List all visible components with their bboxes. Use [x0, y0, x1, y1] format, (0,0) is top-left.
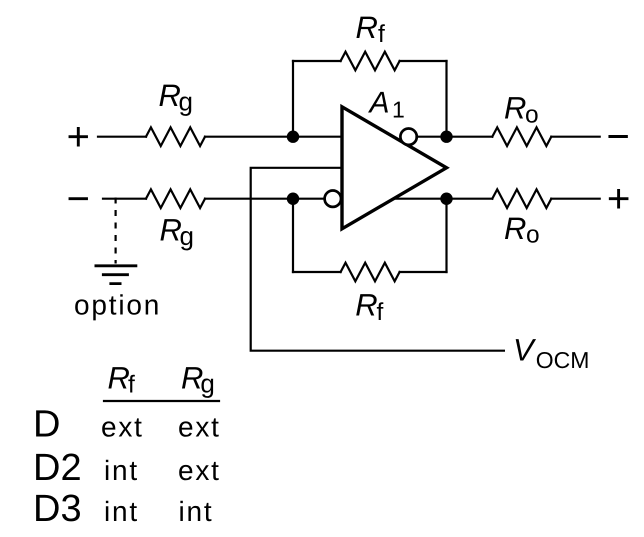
- node dot top output: [440, 131, 452, 143]
- label option: [74, 290, 161, 321]
- table row D: [33, 403, 221, 445]
- wire Rg to inverting input (bottom): [205, 198, 326, 200]
- svg-text:1: 1: [392, 96, 405, 122]
- wire feedback top horizontal left: [293, 60, 341, 62]
- wire + input lead: [98, 136, 146, 138]
- output - terminal: [610, 135, 627, 138]
- svg-text:R: R: [108, 360, 130, 395]
- input + terminal: [70, 128, 87, 145]
- svg-text:R: R: [356, 10, 378, 45]
- svg-text:int: int: [104, 496, 139, 527]
- wire feedback bottom horizontal right: [400, 271, 447, 273]
- svg-text:V: V: [513, 333, 537, 368]
- table row D3: [33, 488, 213, 530]
- svg-text:R: R: [504, 211, 526, 246]
- wire triangle edge to node (bottom): [395, 198, 447, 200]
- wire bottom output to Ro: [447, 198, 493, 200]
- table header Rf: [108, 360, 136, 398]
- wire feedback right vertical (bottom): [445, 199, 447, 272]
- wire Ro to - output: [551, 136, 599, 138]
- svg-text:f: f: [128, 372, 135, 399]
- svg-text:D: D: [33, 403, 60, 445]
- svg-text:R: R: [504, 91, 526, 126]
- wire Rg to summing node (top): [205, 136, 341, 138]
- svg-text:OCM: OCM: [536, 347, 590, 373]
- wire - input lead: [103, 198, 146, 200]
- svg-text:A: A: [368, 86, 390, 119]
- table header rule: [104, 400, 219, 402]
- output + terminal: [610, 190, 627, 207]
- label Rg (top): [159, 78, 193, 117]
- label Rf (bottom): [355, 287, 383, 326]
- label Rg (bottom): [160, 213, 194, 252]
- wire feedback left vertical (bottom): [292, 199, 294, 272]
- label VOCM: [513, 333, 589, 373]
- node dot top input junction: [287, 131, 299, 143]
- inverting output bubble (top): [400, 129, 416, 145]
- wire VOCM to triangle mid input: [251, 168, 504, 351]
- svg-text:ext: ext: [101, 412, 144, 443]
- ground dashed wire (option): [114, 198, 116, 264]
- svg-text:ext: ext: [178, 412, 221, 443]
- table header Rg: [181, 360, 215, 398]
- wire top output to Ro: [447, 136, 493, 138]
- svg-text:o: o: [526, 222, 540, 249]
- wire feedback left vertical (top): [292, 61, 294, 137]
- input - terminal: [70, 197, 87, 200]
- svg-text:R: R: [355, 287, 377, 322]
- resistor Rg (bottom): [146, 189, 205, 208]
- resistor Ro (bottom): [492, 189, 551, 208]
- label Ro (top): [504, 91, 539, 129]
- svg-text:g: g: [200, 369, 214, 399]
- svg-text:g: g: [180, 221, 194, 251]
- resistor Rf (top): [341, 52, 400, 71]
- svg-text:option: option: [74, 290, 161, 321]
- label Ro (bottom): [504, 211, 540, 249]
- wire output bubble to node (top): [417, 136, 447, 138]
- svg-text:ext: ext: [178, 455, 221, 486]
- svg-text:int: int: [104, 455, 139, 486]
- svg-text:f: f: [378, 21, 385, 48]
- ground symbol: [96, 266, 136, 284]
- node dot bottom input junction: [287, 193, 299, 205]
- table row D2: [33, 447, 221, 489]
- op-amp A1 triangle: [342, 107, 447, 229]
- resistor Rf (bottom): [341, 263, 400, 282]
- label Rf (top): [356, 10, 386, 48]
- resistor Ro (top): [492, 127, 551, 146]
- node dot bottom output: [440, 193, 452, 205]
- svg-text:o: o: [525, 102, 539, 129]
- wire Ro to + output: [551, 198, 599, 200]
- wire feedback bottom horizontal left: [293, 271, 341, 273]
- wire feedback top horizontal right: [400, 60, 447, 62]
- svg-text:int: int: [179, 496, 214, 527]
- svg-text:g: g: [179, 87, 193, 117]
- svg-text:D3: D3: [33, 488, 82, 530]
- label A1: [368, 86, 405, 122]
- svg-text:D2: D2: [33, 447, 82, 489]
- resistor Rg (top): [146, 127, 205, 146]
- svg-text:f: f: [377, 299, 384, 326]
- wire feedback right vertical (top): [445, 61, 447, 137]
- inverting input bubble (bottom left): [325, 191, 341, 207]
